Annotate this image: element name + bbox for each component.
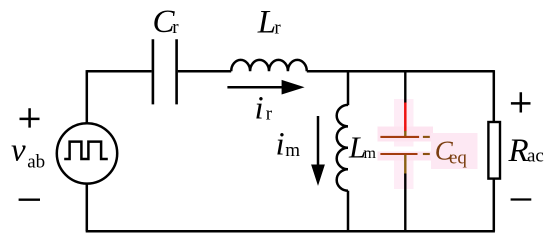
highlight band behind C_eq wire lower <box>394 152 414 190</box>
source square-wave glyph <box>64 142 108 159</box>
svg-text:ab: ab <box>27 152 45 173</box>
svg-text:r: r <box>266 104 273 125</box>
source v_ab circle <box>57 123 117 183</box>
wire top rail mid segment <box>178 70 231 73</box>
svg-text:ac: ac <box>527 145 544 166</box>
wire top rail right segment <box>307 70 494 73</box>
wire top rail left segment <box>87 70 152 73</box>
current arrow i_m <box>317 116 320 167</box>
wire L_m branch lower <box>347 191 350 232</box>
capacitor C_eq top plate dash <box>423 136 430 138</box>
wire right column upper <box>493 70 496 122</box>
plus sign right <box>511 92 531 112</box>
svg-text:eq: eq <box>449 147 467 168</box>
svg-text:i: i <box>255 90 264 126</box>
current arrow i_r <box>227 86 285 89</box>
svg-text:i: i <box>276 127 285 163</box>
highlight patch behind C_eq bottom plate <box>378 152 434 161</box>
capacitor C_eq top plate <box>380 136 419 138</box>
wire C_eq branch red segment <box>404 103 407 132</box>
minus sign left <box>19 198 40 200</box>
minus sign right <box>511 198 532 200</box>
inductor L_r <box>231 60 307 71</box>
wire L_m branch upper <box>347 70 350 105</box>
svg-text:m: m <box>285 140 300 161</box>
resistor R_ac <box>488 122 500 179</box>
svg-text:m: m <box>364 145 377 162</box>
capacitor C_eq bottom plate <box>380 153 417 155</box>
wire C_eq stub below bottom plate <box>404 155 406 175</box>
wire left column lower <box>86 184 89 231</box>
wire right column lower <box>493 179 496 231</box>
capacitor C_r left plate <box>152 39 155 104</box>
capacitor C_eq bottom plate dash <box>423 153 430 155</box>
svg-text:L: L <box>257 4 276 40</box>
highlight patch behind C_eq label <box>431 133 478 169</box>
svg-text:R: R <box>508 133 529 169</box>
wire C_eq stub above top plate <box>404 131 406 136</box>
capacitor C_r right plate <box>175 39 178 104</box>
svg-text:r: r <box>172 17 179 38</box>
svg-text:r: r <box>274 18 281 39</box>
highlight patch behind C_eq top plate <box>378 127 434 142</box>
inductor L_m <box>337 105 348 191</box>
wire left column upper <box>86 70 89 123</box>
wire C_eq branch black lower <box>404 174 406 232</box>
wire bottom rail <box>86 230 495 233</box>
plus sign left <box>20 108 40 127</box>
svg-text:v: v <box>11 132 26 168</box>
wire C_eq branch black upper <box>404 70 406 103</box>
highlight band behind C_eq wire upper <box>394 99 414 147</box>
